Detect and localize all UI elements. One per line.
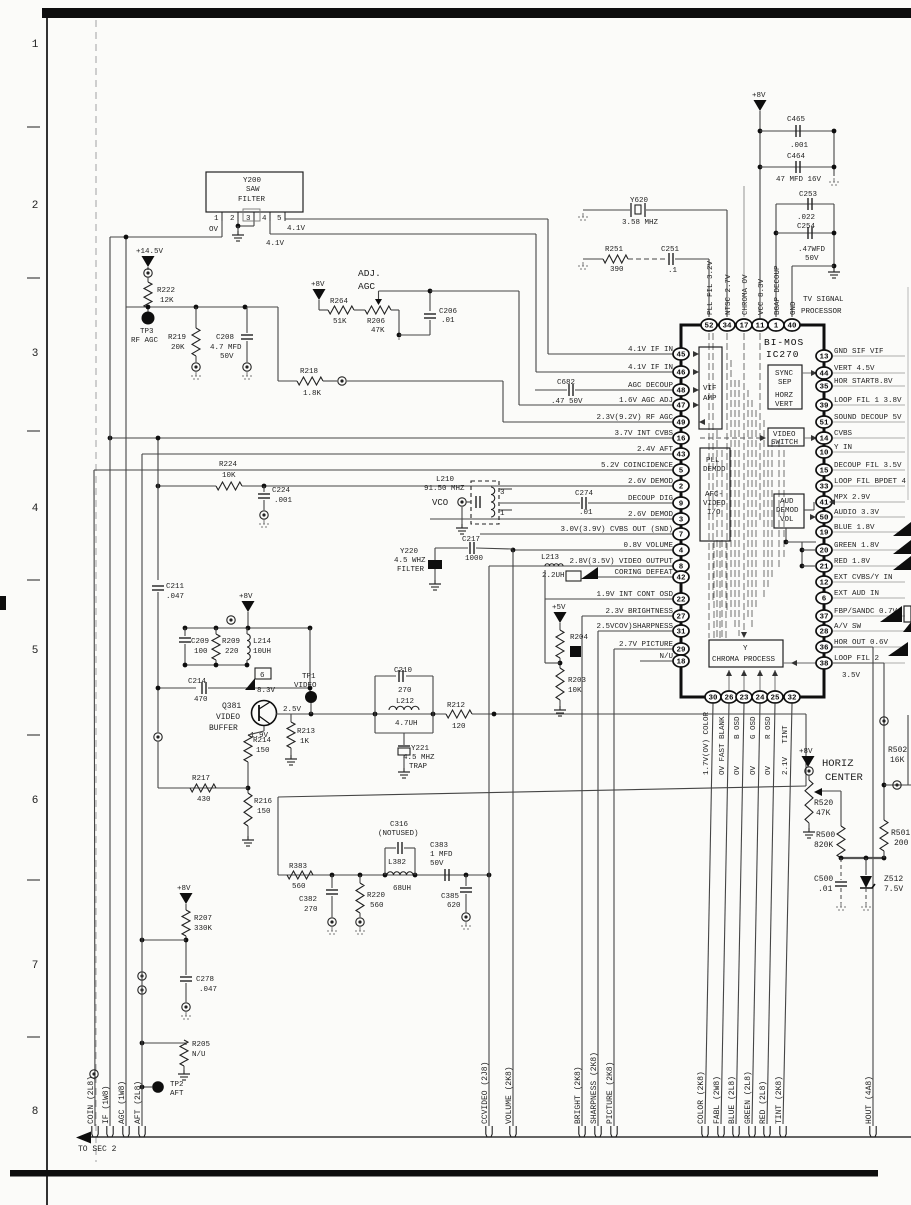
svg-text:IF (1W8): IF (1W8) xyxy=(102,1086,111,1124)
svg-text:2: 2 xyxy=(679,484,684,492)
svg-text:13: 13 xyxy=(819,354,829,362)
svg-text:47K: 47K xyxy=(371,327,385,335)
svg-text:+8V: +8V xyxy=(799,748,813,756)
svg-text:.047: .047 xyxy=(166,593,184,601)
svg-text:50V: 50V xyxy=(220,353,234,361)
svg-text:51K: 51K xyxy=(333,318,347,326)
svg-text:42: 42 xyxy=(676,575,686,583)
svg-text:AFT (2L8): AFT (2L8) xyxy=(134,1081,143,1124)
svg-text:4.1V: 4.1V xyxy=(287,225,306,233)
svg-text:4: 4 xyxy=(679,548,684,556)
svg-text:BUFFER: BUFFER xyxy=(209,724,238,733)
svg-text:+8V: +8V xyxy=(177,885,191,893)
svg-text:R224: R224 xyxy=(219,461,238,469)
svg-text:R216: R216 xyxy=(254,798,273,806)
svg-text:16K: 16K xyxy=(890,756,905,765)
svg-text:AFT: AFT xyxy=(170,1090,184,1098)
svg-text:4.5 MHZ: 4.5 MHZ xyxy=(403,754,435,762)
svg-text:BRIGHT (2K8): BRIGHT (2K8) xyxy=(574,1066,583,1124)
svg-text:16: 16 xyxy=(676,436,686,444)
svg-text:3.5V: 3.5V xyxy=(842,672,861,680)
svg-text:220: 220 xyxy=(225,648,239,656)
svg-text:23: 23 xyxy=(739,695,749,703)
svg-text:12: 12 xyxy=(819,580,829,588)
svg-text:25: 25 xyxy=(770,695,780,703)
svg-text:6: 6 xyxy=(822,596,827,604)
svg-text:SWITCH: SWITCH xyxy=(771,439,798,447)
svg-text:R502: R502 xyxy=(888,746,907,755)
svg-text:HOR OUT 0.6V: HOR OUT 0.6V xyxy=(834,639,889,647)
svg-text:L212: L212 xyxy=(396,698,414,706)
svg-text:11: 11 xyxy=(755,323,765,331)
svg-text:15: 15 xyxy=(819,468,829,476)
svg-text:L382: L382 xyxy=(388,859,406,867)
svg-text:24: 24 xyxy=(755,695,765,703)
svg-text:1.7V(OV) COLOR: 1.7V(OV) COLOR xyxy=(703,711,711,775)
svg-text:RED (2L8): RED (2L8) xyxy=(759,1081,768,1124)
svg-text:C682: C682 xyxy=(557,379,575,387)
svg-text:COIN (2L8): COIN (2L8) xyxy=(87,1076,96,1124)
svg-text:4.1V: 4.1V xyxy=(266,240,285,248)
svg-text:.001: .001 xyxy=(790,142,809,150)
svg-text:BLUE (2L8): BLUE (2L8) xyxy=(728,1076,737,1124)
svg-text:C208: C208 xyxy=(216,334,234,342)
svg-text:FBP/SANDC 0.7V: FBP/SANDC 0.7V xyxy=(834,608,898,616)
svg-text:+5V: +5V xyxy=(552,604,566,612)
svg-text:CVBS: CVBS xyxy=(834,430,853,438)
svg-text:EXT CVBS/Y IN: EXT CVBS/Y IN xyxy=(834,574,893,582)
svg-text:Y: Y xyxy=(743,645,748,653)
svg-text:5: 5 xyxy=(277,215,282,223)
svg-text:GREEN 1.8V: GREEN 1.8V xyxy=(834,542,880,550)
svg-text:TP1: TP1 xyxy=(302,673,316,681)
svg-text:.001: .001 xyxy=(274,497,293,505)
svg-text:4: 4 xyxy=(262,215,267,223)
svg-text:VIDEO: VIDEO xyxy=(703,500,726,508)
svg-text:R203: R203 xyxy=(568,677,587,685)
svg-text:Y620: Y620 xyxy=(630,197,649,205)
svg-text:DEMOD: DEMOD xyxy=(776,507,799,515)
svg-text:MPX 2.9V: MPX 2.9V xyxy=(834,494,871,502)
svg-text:SEP: SEP xyxy=(778,379,792,387)
svg-text:1000: 1000 xyxy=(465,555,484,563)
svg-text:4.5 WHZ: 4.5 WHZ xyxy=(394,557,426,565)
svg-text:SHARPNESS (2K8): SHARPNESS (2K8) xyxy=(590,1052,599,1124)
svg-text:C316: C316 xyxy=(390,821,409,829)
svg-text:HORIZ: HORIZ xyxy=(822,758,854,770)
svg-text:Y200: Y200 xyxy=(243,177,262,185)
svg-text:17: 17 xyxy=(739,323,748,331)
svg-text:1.8K: 1.8K xyxy=(303,390,322,398)
svg-text:HOUT (4A8): HOUT (4A8) xyxy=(865,1076,874,1124)
svg-text:RF AGC: RF AGC xyxy=(131,337,159,345)
svg-text:3.7V INT CVBS: 3.7V INT CVBS xyxy=(614,430,673,438)
svg-text:+8V: +8V xyxy=(311,281,325,289)
svg-text:AGC (1W8): AGC (1W8) xyxy=(118,1081,127,1124)
svg-text:C500: C500 xyxy=(814,875,833,884)
svg-text:L210: L210 xyxy=(436,476,455,484)
svg-text:.01: .01 xyxy=(579,509,593,517)
svg-text:C253: C253 xyxy=(799,191,818,199)
svg-text:35: 35 xyxy=(819,384,829,392)
svg-text:ADJ.: ADJ. xyxy=(358,268,381,279)
svg-text:560: 560 xyxy=(292,883,306,891)
svg-text:+14.5V: +14.5V xyxy=(136,248,164,256)
svg-text:SYNC: SYNC xyxy=(775,370,794,378)
svg-text:28: 28 xyxy=(819,629,829,637)
svg-text:2.3V BRIGHTNESS: 2.3V BRIGHTNESS xyxy=(605,608,673,616)
svg-text:45: 45 xyxy=(676,352,686,360)
svg-text:3.0V(3.9V) CVBS OUT (SND): 3.0V(3.9V) CVBS OUT (SND) xyxy=(560,526,673,534)
svg-text:OV G OSD: OV G OSD xyxy=(750,716,758,775)
svg-text:LOOP FIL 1 3.8V: LOOP FIL 1 3.8V xyxy=(834,397,902,405)
svg-text:2.6V DEMOD: 2.6V DEMOD xyxy=(628,478,674,486)
svg-text:10: 10 xyxy=(819,450,829,458)
svg-text:BGAP DECOUP: BGAP DECOUP xyxy=(774,265,782,315)
svg-text:31: 31 xyxy=(676,629,686,637)
svg-text:150: 150 xyxy=(256,747,270,755)
svg-text:Y221: Y221 xyxy=(411,745,430,753)
svg-text:4.7UH: 4.7UH xyxy=(395,720,418,728)
svg-text:270: 270 xyxy=(398,687,412,695)
svg-text:44: 44 xyxy=(819,371,829,379)
svg-text:CENTER: CENTER xyxy=(825,772,864,784)
svg-text:SOUND DECOUP 5V: SOUND DECOUP 5V xyxy=(834,414,902,422)
svg-text:(NOTUSED): (NOTUSED) xyxy=(378,830,419,838)
svg-text:470: 470 xyxy=(194,696,208,704)
svg-text:AUD: AUD xyxy=(780,498,794,506)
svg-text:DEMOD: DEMOD xyxy=(703,466,726,474)
svg-text:620: 620 xyxy=(447,902,461,910)
svg-text:HOR START8.8V: HOR START8.8V xyxy=(834,378,893,386)
svg-text:46: 46 xyxy=(676,370,686,378)
svg-text:50V: 50V xyxy=(430,860,444,868)
svg-text:1: 1 xyxy=(32,39,39,51)
svg-text:100: 100 xyxy=(194,648,208,656)
svg-text:10K: 10K xyxy=(568,687,582,695)
svg-text:CHROMA PROCESS: CHROMA PROCESS xyxy=(712,656,776,664)
svg-text:36: 36 xyxy=(819,645,829,653)
svg-text:0.8V VOLUME: 0.8V VOLUME xyxy=(623,542,673,550)
svg-text:GND SIF VIF: GND SIF VIF xyxy=(834,348,884,356)
svg-text:3: 3 xyxy=(246,215,251,223)
svg-text:1K: 1K xyxy=(300,738,310,746)
svg-text:14: 14 xyxy=(819,436,829,444)
svg-text:20: 20 xyxy=(819,548,829,556)
svg-text:1 MFD: 1 MFD xyxy=(430,851,453,859)
svg-text:AMP: AMP xyxy=(703,395,717,403)
svg-text:PICTURE (2K8): PICTURE (2K8) xyxy=(606,1062,615,1124)
svg-text:7: 7 xyxy=(32,960,39,972)
svg-text:TINT (2K8): TINT (2K8) xyxy=(775,1076,784,1124)
svg-text:390: 390 xyxy=(610,266,624,274)
svg-text:43: 43 xyxy=(676,452,686,460)
svg-text:.047: .047 xyxy=(199,986,217,994)
svg-text:BLUE 1.8V: BLUE 1.8V xyxy=(834,524,875,532)
svg-text:+8V: +8V xyxy=(752,92,766,100)
svg-text:C214: C214 xyxy=(188,678,207,686)
svg-text:VIF: VIF xyxy=(703,385,717,393)
svg-text:IC270: IC270 xyxy=(766,349,800,360)
svg-text:49: 49 xyxy=(676,420,686,428)
svg-text:12K: 12K xyxy=(160,297,174,305)
svg-text:AGC: AGC xyxy=(358,281,375,292)
svg-text:47 MFD 16V: 47 MFD 16V xyxy=(776,176,822,184)
svg-text:R209: R209 xyxy=(222,638,240,646)
svg-text:37: 37 xyxy=(819,614,828,622)
svg-text:.1: .1 xyxy=(668,267,678,275)
svg-text:VIDEO: VIDEO xyxy=(773,431,796,439)
svg-text:820K: 820K xyxy=(814,841,833,850)
svg-text:R205: R205 xyxy=(192,1041,211,1049)
svg-text:34: 34 xyxy=(722,323,732,331)
svg-text:C383: C383 xyxy=(430,842,449,850)
svg-text:R501: R501 xyxy=(891,829,910,838)
svg-text:41: 41 xyxy=(819,500,829,508)
svg-text:6: 6 xyxy=(260,672,265,680)
svg-text:47K: 47K xyxy=(816,809,831,818)
svg-text:1.6V AGC ADJ: 1.6V AGC ADJ xyxy=(619,397,673,405)
svg-text:Z512: Z512 xyxy=(884,875,903,884)
svg-text:18: 18 xyxy=(676,659,686,667)
svg-text:C224: C224 xyxy=(272,487,291,495)
svg-text:.022: .022 xyxy=(797,214,815,222)
svg-text:I/O: I/O xyxy=(707,509,721,517)
svg-text:560: 560 xyxy=(370,902,384,910)
svg-text:PLL FIL 3.2V: PLL FIL 3.2V xyxy=(707,260,715,315)
svg-text:38: 38 xyxy=(819,661,829,669)
svg-text:52: 52 xyxy=(704,323,714,331)
svg-text:R219: R219 xyxy=(168,334,186,342)
svg-text:R220: R220 xyxy=(367,892,386,900)
svg-text:2.7V PICTURE: 2.7V PICTURE xyxy=(619,641,674,649)
svg-text:C382: C382 xyxy=(299,896,317,904)
svg-text:TP2: TP2 xyxy=(170,1081,184,1089)
svg-text:COLOR (2K8): COLOR (2K8) xyxy=(697,1071,706,1124)
svg-text:AFC-: AFC- xyxy=(705,491,723,499)
svg-text:TP3: TP3 xyxy=(140,328,154,336)
svg-text:4.1V IF IN: 4.1V IF IN xyxy=(628,346,673,354)
svg-text:N/U: N/U xyxy=(192,1051,206,1059)
svg-text:C274: C274 xyxy=(575,490,594,498)
svg-text:VCO: VCO xyxy=(432,498,448,508)
svg-text:.47WFD: .47WFD xyxy=(798,246,826,254)
svg-text:R264: R264 xyxy=(330,298,349,306)
svg-text:N/U: N/U xyxy=(659,653,673,661)
svg-text:FILTER: FILTER xyxy=(397,566,425,574)
svg-text:20K: 20K xyxy=(171,344,185,352)
svg-text:50: 50 xyxy=(819,515,829,523)
svg-text:Q381: Q381 xyxy=(222,702,241,711)
svg-text:HORZ: HORZ xyxy=(775,392,794,400)
svg-text:68UH: 68UH xyxy=(393,885,411,893)
svg-text:32: 32 xyxy=(787,695,797,703)
svg-text:C385: C385 xyxy=(441,893,460,901)
svg-text:2: 2 xyxy=(230,215,235,223)
svg-text:19: 19 xyxy=(819,530,829,538)
svg-text:120: 120 xyxy=(452,723,466,731)
svg-text:R500: R500 xyxy=(816,831,835,840)
svg-text:C254: C254 xyxy=(797,223,816,231)
svg-text:R251: R251 xyxy=(605,246,624,254)
svg-text:TV SIGNAL: TV SIGNAL xyxy=(803,296,844,304)
svg-text:270: 270 xyxy=(304,906,318,914)
svg-text:LOOP FIL 2: LOOP FIL 2 xyxy=(834,655,879,663)
svg-text:3: 3 xyxy=(679,517,684,525)
svg-text:R217: R217 xyxy=(192,775,210,783)
svg-text:21: 21 xyxy=(819,564,829,572)
svg-text:VCC 8.3V: VCC 8.3V xyxy=(758,278,766,315)
svg-text:CHROMA OV: CHROMA OV xyxy=(742,274,750,315)
svg-text:NTSC 2.7V: NTSC 2.7V xyxy=(725,274,733,315)
svg-text:30: 30 xyxy=(708,695,718,703)
svg-text:430: 430 xyxy=(197,796,211,804)
svg-text:A/V SW: A/V SW xyxy=(834,623,862,631)
svg-text:.01: .01 xyxy=(818,885,833,894)
svg-text:R206: R206 xyxy=(367,318,386,326)
svg-text:RED 1.8V: RED 1.8V xyxy=(834,558,871,566)
svg-text:AGC DECOUP: AGC DECOUP xyxy=(628,382,674,390)
svg-text:33: 33 xyxy=(819,484,829,492)
svg-text:EXT AUD IN: EXT AUD IN xyxy=(834,590,879,598)
svg-text:3: 3 xyxy=(500,489,505,497)
svg-text:48: 48 xyxy=(676,388,686,396)
svg-text:8: 8 xyxy=(32,1106,39,1118)
svg-text:Y220: Y220 xyxy=(400,548,419,556)
svg-text:OV FAST BLANK: OV FAST BLANK xyxy=(719,716,727,775)
svg-text:C278: C278 xyxy=(196,976,214,984)
svg-text:FABL (2W8): FABL (2W8) xyxy=(713,1076,722,1124)
svg-text:1: 1 xyxy=(214,215,219,223)
svg-text:SAW: SAW xyxy=(246,186,260,194)
svg-text:CORING DEFEAT: CORING DEFEAT xyxy=(614,569,673,577)
svg-text:10UH: 10UH xyxy=(253,648,271,656)
svg-text:2.5V: 2.5V xyxy=(283,706,302,714)
svg-text:VIDEO: VIDEO xyxy=(216,713,240,722)
svg-text:R212: R212 xyxy=(447,702,465,710)
svg-text:9: 9 xyxy=(679,501,684,509)
svg-text:TRAP: TRAP xyxy=(409,763,428,771)
svg-text:VERT 4.5V: VERT 4.5V xyxy=(834,365,875,373)
svg-text:5: 5 xyxy=(679,468,684,476)
svg-text:DECOUP DIG: DECOUP DIG xyxy=(628,495,674,503)
svg-text:50V: 50V xyxy=(805,255,819,263)
svg-text:330K: 330K xyxy=(194,925,213,933)
svg-text:C465: C465 xyxy=(787,116,806,124)
svg-text:51: 51 xyxy=(819,420,829,428)
svg-text:Y IN: Y IN xyxy=(834,444,852,452)
svg-text:1: 1 xyxy=(500,510,505,518)
svg-text:2: 2 xyxy=(32,200,39,212)
svg-text:26: 26 xyxy=(724,695,734,703)
svg-text:47: 47 xyxy=(676,403,685,411)
svg-text:OV B OSD: OV B OSD xyxy=(734,716,742,775)
svg-text:C206: C206 xyxy=(439,308,458,316)
svg-text:8.3V: 8.3V xyxy=(257,687,276,695)
svg-text:C251: C251 xyxy=(661,246,680,254)
svg-text:C211: C211 xyxy=(166,583,185,591)
svg-text:CCVIDEO (2J8): CCVIDEO (2J8) xyxy=(481,1062,490,1124)
svg-text:.01: .01 xyxy=(441,317,455,325)
svg-text:2.4V AFT: 2.4V AFT xyxy=(637,446,674,454)
svg-text:2.5VCOV)SHARPNESS: 2.5VCOV)SHARPNESS xyxy=(596,623,673,631)
svg-text:150: 150 xyxy=(257,808,271,816)
svg-text:6: 6 xyxy=(32,795,39,807)
svg-text:91.50 MHZ: 91.50 MHZ xyxy=(424,485,465,493)
svg-text:C209: C209 xyxy=(191,638,209,646)
svg-text:5: 5 xyxy=(32,645,39,657)
svg-text:R383: R383 xyxy=(289,863,308,871)
svg-text:40: 40 xyxy=(787,323,797,331)
svg-text:GREEN (2L8): GREEN (2L8) xyxy=(744,1071,753,1124)
svg-text:1.9V INT CONT OSD: 1.9V INT CONT OSD xyxy=(596,591,673,599)
svg-text:OV R OSD: OV R OSD xyxy=(765,716,773,775)
svg-text:DECOUP FIL 3.5V: DECOUP FIL 3.5V xyxy=(834,462,902,470)
svg-text:VOLUME (2K8): VOLUME (2K8) xyxy=(505,1066,514,1124)
svg-text:10K: 10K xyxy=(222,472,236,480)
svg-text:R218: R218 xyxy=(300,368,318,376)
svg-text:L213: L213 xyxy=(541,554,560,562)
svg-text:R520: R520 xyxy=(814,799,833,808)
svg-text:2.1V TINT: 2.1V TINT xyxy=(782,725,790,775)
svg-text:AUDIO 3.3V: AUDIO 3.3V xyxy=(834,509,880,517)
svg-text:R222: R222 xyxy=(157,287,175,295)
svg-text:L214: L214 xyxy=(253,638,272,646)
svg-text:FILTER: FILTER xyxy=(238,196,266,204)
svg-text:VIDEO: VIDEO xyxy=(294,682,317,690)
svg-text:3: 3 xyxy=(32,348,39,360)
svg-text:VERT: VERT xyxy=(775,401,794,409)
svg-text:LOOP FIL BPDET 4: LOOP FIL BPDET 4 xyxy=(834,478,907,486)
svg-text:C464: C464 xyxy=(787,153,806,161)
svg-text:+8V: +8V xyxy=(239,593,253,601)
svg-text:3.58 MHZ: 3.58 MHZ xyxy=(622,219,659,227)
svg-text:2.6V DEMOD: 2.6V DEMOD xyxy=(628,511,674,519)
svg-text:GND: GND xyxy=(790,301,798,315)
svg-text:BI-MOS: BI-MOS xyxy=(764,337,804,348)
svg-text:R204: R204 xyxy=(570,634,589,642)
svg-text:R213: R213 xyxy=(297,728,316,736)
svg-text:200: 200 xyxy=(894,839,909,848)
svg-text:27: 27 xyxy=(676,614,685,622)
svg-text:7.5V: 7.5V xyxy=(884,885,903,894)
svg-text:PLL: PLL xyxy=(706,457,720,465)
svg-text:2.3V(9.2V) RF AGC: 2.3V(9.2V) RF AGC xyxy=(596,414,673,422)
svg-text:29: 29 xyxy=(676,647,686,655)
svg-text:C217: C217 xyxy=(462,536,480,544)
svg-text:C210: C210 xyxy=(394,667,413,675)
svg-text:OV: OV xyxy=(209,226,219,234)
svg-text:5.2V COINCIDENCE: 5.2V COINCIDENCE xyxy=(601,462,674,470)
svg-text:VOL: VOL xyxy=(780,516,794,524)
svg-text:PROCESSOR: PROCESSOR xyxy=(801,308,842,316)
svg-text:2.8V(3.5V) VIDEO OUTPUT: 2.8V(3.5V) VIDEO OUTPUT xyxy=(569,558,673,566)
svg-text:1: 1 xyxy=(774,323,779,331)
svg-text:39: 39 xyxy=(819,403,829,411)
svg-text:4.1V IF IN: 4.1V IF IN xyxy=(628,364,673,372)
svg-text:4: 4 xyxy=(32,503,39,515)
svg-text:22: 22 xyxy=(676,597,686,605)
svg-text:7: 7 xyxy=(679,532,684,540)
svg-text:R214: R214 xyxy=(253,737,272,745)
svg-text:R207: R207 xyxy=(194,915,212,923)
svg-text:4.7 MFD: 4.7 MFD xyxy=(210,344,242,352)
svg-text:TO SEC 2: TO SEC 2 xyxy=(78,1145,117,1154)
